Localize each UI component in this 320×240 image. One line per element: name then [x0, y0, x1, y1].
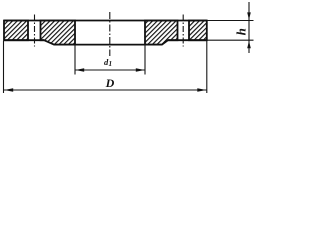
extension line D left: [3, 41, 5, 93]
arrowhead h top (points down): [247, 12, 251, 19]
dimension line D: [4, 89, 207, 91]
arrowhead d1 left (points left): [75, 68, 84, 71]
section block right rim (hatched): [189, 21, 207, 41]
extension line h bottom: [207, 39, 254, 41]
section block left-middle with boss chamfer (hatched): [41, 21, 76, 45]
boss bottom edge across bore: [54, 44, 162, 46]
bottom rim edge across right bolt hole: [168, 39, 207, 41]
dimension line d1: [75, 69, 145, 71]
dimension line h: [248, 2, 250, 53]
extension line D right: [206, 41, 208, 93]
extension line h top: [207, 20, 254, 22]
svg-text:h: h: [234, 28, 249, 35]
section block left rim (hatched): [4, 21, 28, 41]
flange cross-section technical drawing: [0, 0, 260, 100]
arrowhead d1 right (points right): [136, 68, 145, 71]
arrowhead h bottom (points up): [247, 41, 251, 48]
section block right-middle with boss chamfer (hatched): [145, 21, 178, 45]
svg-text:D: D: [105, 76, 115, 90]
centerline left bolt hole: [34, 15, 36, 47]
arrowhead D right (points right): [197, 88, 206, 91]
extension line d1 right: [144, 46, 146, 75]
bottom rim edge across left bolt hole: [4, 39, 44, 41]
centerline right bolt hole: [182, 15, 184, 47]
top face edge line across holes: [4, 20, 207, 22]
centerline main axis: [109, 12, 111, 56]
arrowhead D left (points left): [4, 88, 13, 91]
extension line d1 left: [74, 46, 76, 75]
